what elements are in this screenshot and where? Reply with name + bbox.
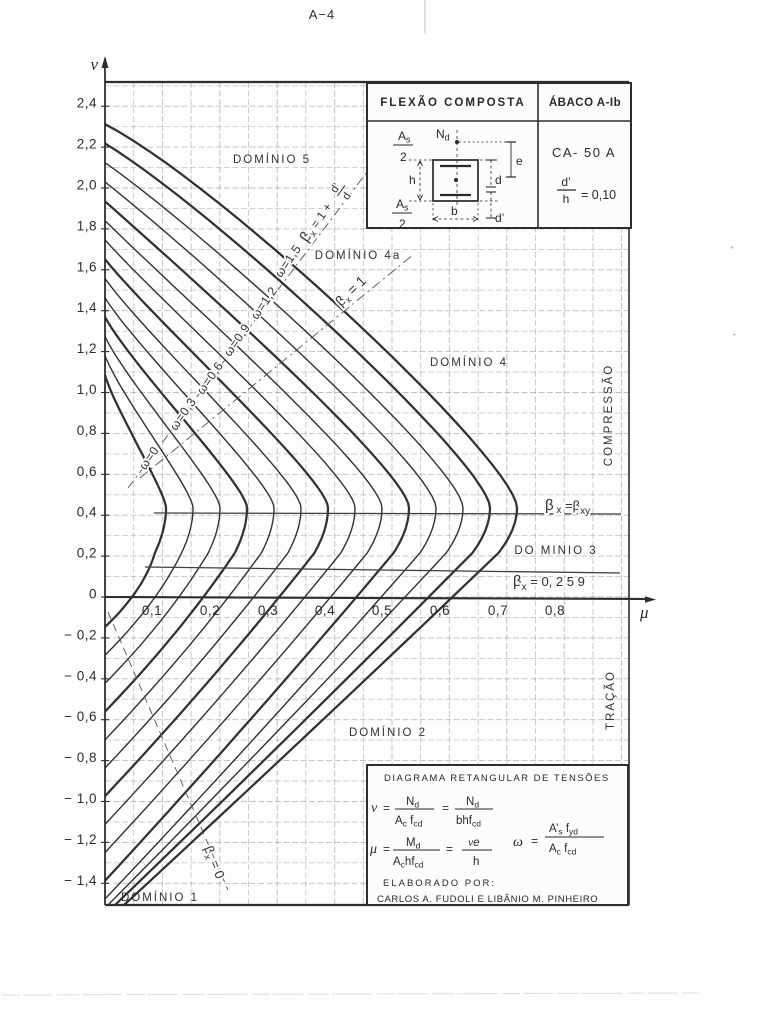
scan artifact bottom edge [2,993,700,995]
curve omega=1,5 [105,124,517,905]
svg-text:0,2: 0,2 [77,546,97,561]
plot border top [105,81,629,83]
svg-text:2,0: 2,0 [77,178,97,193]
line beta_x = beta_xy (horizontal) [154,513,621,514]
svg-text:ω=0,3: ω=0,3 [167,395,199,433]
svg-text:− 1,0: − 1,0 [64,791,97,806]
svg-text:b: b [451,204,458,218]
info box divider horizontal [367,120,631,122]
svg-text:0,7: 0,7 [488,603,508,618]
svg-text:1,0: 1,0 [77,382,97,397]
svg-text:− 1,2: − 1,2 [64,832,97,847]
dashed center vertical [456,130,458,205]
mu axis horizontal [105,597,650,599]
line beta_x = 1+d'/d (dash-dot) [128,172,367,488]
top rebar bar [440,165,471,167]
svg-text:0,3: 0,3 [258,603,278,618]
svg-text:βx = 0, 2 5 9: βx = 0, 2 5 9 [513,573,585,593]
svg-text:ω: ω [513,835,523,850]
curve omega=0,4 [105,298,274,740]
plot border right [628,82,630,905]
svg-text:COMPRESSÃO: COMPRESSÃO [602,364,615,466]
svg-text:0,6: 0,6 [77,464,97,479]
svg-text:ν: ν [371,801,378,816]
svg-text:DOMÍNIO 4a: DOMÍNIO 4a [315,249,401,262]
svg-text:d: d [340,190,353,202]
svg-text:μ: μ [639,603,649,622]
svg-text:=: = [442,801,449,815]
svg-text:DO MINIO 3: DO MINIO 3 [514,545,597,557]
column rectangle [433,160,478,201]
bottom rebar bar [440,194,471,196]
curve omega=1,1 [105,163,463,905]
svg-text:− 0,8: − 0,8 [64,750,97,765]
svg-text:ÁBACO A-Ib: ÁBACO A-Ib [549,96,621,109]
svg-text:0,6: 0,6 [430,603,450,618]
svg-text:=: = [531,834,538,848]
svg-text:2: 2 [400,150,407,164]
scan artifact vertical line top [424,0,426,34]
svg-text:ELABORADO POR:: ELABORADO POR: [383,878,496,889]
svg-text:CARLOS A. FUDOLI E LIBÂNIO: CARLOS A. FUDOLI E LIBÂNIO M. PINHEIRO [377,894,598,905]
line beta_x = 0 (dashed) [108,612,228,890]
svg-text:2,2: 2,2 [77,137,97,152]
curve omega=0,8 [105,221,382,853]
curve omega=0,2 [105,336,220,683]
svg-text:βx = 1 +: βx = 1 + [296,199,337,246]
curve omega=1,0 [105,182,436,899]
svg-text:h: h [563,192,570,206]
svg-text:d’: d’ [495,211,504,225]
svg-text:DOMÍNIO 1: DOMÍNIO 1 [121,891,199,904]
section sketch: As/2 top fraction [398,129,411,164]
svg-text:0,2: 0,2 [200,603,220,618]
curve omega=0,3 [105,317,247,711]
line beta_x = 0,259 [145,567,620,573]
svg-text:βx = 1: βx = 1 [332,272,371,310]
svg-text:0: 0 [89,587,97,602]
svg-text:ν: ν [90,55,98,74]
svg-text:=: = [383,842,390,856]
svg-text:− 1,4: − 1,4 [64,873,97,888]
line beta_x = 1 (dash-dot) [140,254,414,478]
svg-text:h: h [409,173,416,187]
curve omega=0,6 [105,259,328,796]
mu axis tick labels [142,603,565,618]
svg-text:ω=1,5: ω=1,5 [272,242,304,280]
svg-text:h: h [473,856,479,868]
svg-text:DOMÍNIO 5: DOMÍNIO 5 [233,153,311,166]
svg-text:ω=0,6: ω=0,6 [194,359,226,397]
svg-text:0,8: 0,8 [545,603,565,618]
svg-text:0,5: 0,5 [372,603,392,618]
svg-text:0,8: 0,8 [77,423,97,438]
curve omega=0,5 [105,279,301,769]
svg-text:1,2: 1,2 [77,341,97,356]
svg-text:− 0,6: − 0,6 [64,709,97,724]
centroid dot [454,178,458,182]
svg-text:CA- 50 A: CA- 50 A [552,145,616,160]
svg-text:0,1: 0,1 [142,603,162,618]
svg-text:1,4: 1,4 [77,300,97,315]
svg-text:μ: μ [369,842,377,857]
curve omega=0,1 [105,356,193,656]
curve omega=0 [105,375,166,627]
svg-text:e: e [516,154,523,168]
svg-text:=: = [446,842,453,856]
grid minor lines [105,82,629,905]
info box divider vertical [537,83,539,228]
svg-text:0,4: 0,4 [77,505,97,520]
svg-text:− 0,4: − 0,4 [64,668,97,683]
svg-text:DOMÍNIO 2: DOMÍNIO 2 [349,726,427,739]
svg-text:0,4: 0,4 [315,603,335,618]
svg-text:− 0,2: − 0,2 [64,627,97,642]
svg-text:A−4: A−4 [309,7,336,22]
svg-text:TRAÇÃO: TRAÇÃO [604,670,617,730]
curve omega=0,7 [105,240,355,825]
svg-text:d: d [495,173,502,187]
extension lines left corners [409,159,432,161]
nu axis vertical [104,62,106,905]
curve omega=0,9 [105,201,409,881]
svg-text:FLEXÃO COMPOSTA: FLEXÃO COMPOSTA [380,96,525,109]
svg-text:1,8: 1,8 [77,218,97,233]
formula box background [367,765,628,905]
svg-text:ˮ: ˮ [733,333,736,342]
section sketch: As/2 bottom fraction [396,197,409,231]
svg-text:DIAGRAMA RETANGULAR DE TENS: DIAGRAMA RETANGULAR DE TENSÕES [384,773,610,784]
svg-text:2,4: 2,4 [77,96,97,111]
info box background [367,83,631,228]
svg-text:1,6: 1,6 [77,259,97,274]
Nd point [455,140,459,144]
svg-text:2: 2 [399,217,406,231]
svg-text:=: = [383,801,390,815]
svg-text:νe: νe [468,837,480,849]
svg-text:ˮ: ˮ [731,246,734,255]
svg-text:DOMÍNIO 4: DOMÍNIO 4 [430,356,508,369]
plot border bottom [105,904,629,906]
nu axis tick labels [64,96,97,888]
beta line labels [199,178,590,881]
svg-text:= 0,10: = 0,10 [581,188,616,202]
omega curve labels [136,242,304,472]
region labels [121,153,617,904]
dotted line from Nd to e dim [459,141,516,143]
curve omega=1,2 [105,143,490,905]
svg-text:d’: d’ [561,175,570,189]
